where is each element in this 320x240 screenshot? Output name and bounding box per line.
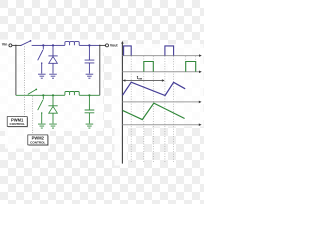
dimension line t_sw — [123, 80, 163, 82]
wire node D to node E — [43, 94, 53, 96]
wire output bus down to phase 2 output — [99, 45, 101, 95]
wire node B to inductor L1 — [53, 44, 65, 46]
diode D1 cathode bar — [48, 55, 57, 57]
terminal Vin — [9, 44, 12, 47]
gridline at green pulse 1 rise — [143, 56, 145, 162]
ground under D1 — [49, 74, 57, 78]
waveform PWM2 pulses — [144, 62, 196, 72]
switch S2 shunt (phase 1) stub — [42, 45, 44, 49]
wire node to switch S1 — [16, 44, 22, 46]
capacitor C1 stem bottom — [88, 63, 90, 74]
switch S1 blade tip dot — [30, 40, 32, 42]
svg-text:Vin: Vin — [2, 43, 8, 47]
switch S2 contact dot — [41, 62, 42, 63]
waveform inductor current IL1 — [123, 82, 186, 95]
svg-text:tsw: tsw — [137, 75, 143, 81]
node input junction — [15, 45, 17, 47]
wire L2 to node F — [79, 94, 89, 96]
switch S2 blade — [38, 50, 43, 60]
ground under S2 — [38, 74, 46, 78]
PWM1 control block — [7, 117, 27, 127]
time axis of IL1 plot — [122, 101, 199, 103]
capacitor C1 stem top — [88, 45, 90, 60]
node B junction dot — [52, 44, 54, 46]
wire node C to output node — [89, 44, 99, 46]
ground under S4 — [38, 124, 46, 128]
wire control line PWM2 to S3 (dotted) — [32, 96, 34, 135]
diode D2 stem bottom — [52, 113, 54, 123]
diode D2 cathode bar — [48, 105, 57, 107]
node E junction dot — [52, 94, 54, 96]
ground under C1 — [86, 74, 94, 78]
time axis of IL2 plot — [122, 124, 199, 126]
waveform axis arrowhead — [121, 41, 124, 44]
time axis of PWM1 plot — [122, 55, 199, 57]
wire control line PWM1 to S1 (dotted) — [23, 46, 25, 116]
arrowhead PWM2 time axis — [199, 71, 202, 74]
switch S4 contact dot — [41, 112, 42, 113]
capacitor C2 plates — [85, 110, 95, 113]
switch S2 lower post — [41, 63, 43, 74]
svg-text:Vout: Vout — [110, 44, 119, 48]
gridline at blue pulse 2 rise — [164, 56, 166, 162]
PWM2 control block shadow — [29, 136, 49, 146]
inductor L2 — [65, 92, 79, 96]
capacitor C2 stem top — [88, 95, 90, 110]
wire node A to node B — [43, 44, 53, 46]
switch S3 blade (phase 2) — [28, 89, 37, 94]
PWM2 control block — [28, 135, 48, 145]
switch S1 blade (phase 1) — [20, 41, 30, 46]
capacitor C2 stem bottom — [88, 113, 90, 124]
capacitor C1 plates — [85, 60, 95, 63]
arrowhead PWM1 time axis — [199, 54, 202, 57]
node output junction dot — [99, 45, 101, 47]
gridline at green pulse 2 fall — [195, 56, 197, 72]
diode D1 stem top — [52, 45, 54, 56]
gridline at green pulse 1 fall — [152, 56, 154, 162]
arrowhead IL2 time axis — [199, 123, 202, 126]
node C junction dot — [88, 44, 90, 46]
wire phase 2 input — [16, 94, 43, 96]
wire S1 contact to node A — [32, 44, 44, 46]
ground under C2 — [86, 124, 94, 128]
waveform PWM1 pulses — [124, 46, 174, 56]
wire L1 to node C — [79, 44, 89, 46]
svg-text:CONTROL: CONTROL — [10, 122, 25, 126]
gridline at blue pulse 1 fall — [130, 46, 132, 162]
svg-text:CONTROL: CONTROL — [30, 141, 45, 145]
dimension line right arrowhead — [162, 79, 165, 81]
switch S4 blade — [38, 100, 43, 110]
wire Vin to input node — [12, 44, 16, 46]
switch S4 lower post — [41, 113, 43, 124]
node F junction dot — [88, 94, 90, 96]
arrowhead IL1 time axis — [199, 101, 202, 104]
ground under D2 — [49, 124, 57, 128]
switch S3 blade tip dot — [35, 89, 37, 91]
wire node F to output bus — [89, 94, 99, 96]
dimension line left arrowhead — [123, 79, 126, 81]
diode D1 stem bottom — [52, 63, 54, 73]
node A junction dot — [42, 44, 44, 46]
diode D2 stem top — [52, 95, 54, 106]
wire input bus down to phase 2 — [15, 45, 17, 95]
node D junction dot — [42, 94, 44, 96]
gridline at green pulse 2 rise — [185, 56, 187, 72]
diode D2 triangle — [49, 106, 58, 113]
time axis of PWM2 plot — [122, 71, 199, 73]
gridline at blue pulse 2 fall — [173, 46, 175, 162]
waveform inductor current IL2 — [123, 103, 185, 120]
wire output node to Vout terminal — [100, 44, 106, 46]
terminal Vout — [106, 44, 109, 47]
inductor L1 — [65, 42, 79, 46]
switch S4 shunt (phase 2) stub — [42, 95, 44, 99]
diode D1 triangle — [49, 57, 58, 64]
wire node E to inductor L2 — [53, 94, 65, 96]
PWM1 control block shadow — [8, 117, 28, 127]
waveform axis vertical — [121, 43, 123, 164]
